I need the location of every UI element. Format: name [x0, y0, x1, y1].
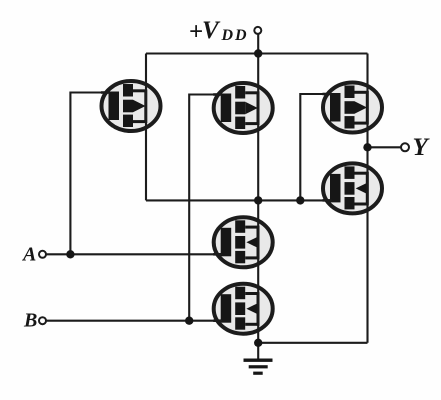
- wire: VDD stub: [257, 34, 259, 54]
- wire: Q1 gate riser from A: [70, 93, 110, 255]
- node: input B junction: [185, 317, 193, 325]
- node: input A junction: [66, 250, 74, 258]
- node: NAND output on center column: [254, 196, 262, 204]
- wire: input B line: [46, 320, 222, 322]
- wire: top VDD rail: [146, 52, 368, 54]
- wire: center column (Q2,Q5,Q6 channel): [257, 54, 259, 343]
- wire: right column (Q3,Q4 channel): [366, 54, 368, 343]
- svg-text:B: B: [23, 310, 37, 332]
- wire: left column (Q1 channel): [145, 54, 147, 201]
- terminal: Y: [401, 143, 409, 151]
- svg-text:A: A: [21, 244, 36, 266]
- wire: Q2 gate riser from B: [189, 95, 222, 321]
- wire: bottom ground line: [258, 342, 367, 344]
- node: NAND output to inverter gates: [296, 196, 304, 204]
- svg-text:DD: DD: [221, 27, 249, 44]
- svg-text:Y: Y: [413, 134, 431, 161]
- svg-text:V: V: [202, 17, 221, 44]
- terminal: A: [39, 251, 46, 258]
- node: output Y junction: [363, 143, 371, 151]
- transistor Q1 (PMOS, top-left): [101, 81, 161, 131]
- transistor Q4 (NMOS, inverter): [323, 163, 383, 213]
- transistor Q3 (PMOS, top-right): [323, 83, 383, 133]
- wire: NAND output node line: [146, 199, 332, 201]
- transistor Q5 (NMOS, input A): [213, 217, 273, 267]
- node: VDD rail junction: [254, 49, 262, 57]
- wire: Q3 gate riser: [300, 94, 331, 200]
- terminal: B: [39, 317, 46, 324]
- terminal: +VDD: [254, 27, 261, 34]
- wire: output Y line: [368, 146, 402, 148]
- ground: [244, 359, 273, 375]
- wire: ground stub: [257, 343, 259, 360]
- label +VDD: [189, 17, 249, 46]
- wire: input A line: [46, 253, 222, 255]
- transistor Q2 (PMOS, top-middle): [213, 83, 273, 133]
- node: ground junction: [254, 339, 262, 347]
- transistor Q6 (NMOS, input B): [213, 284, 273, 334]
